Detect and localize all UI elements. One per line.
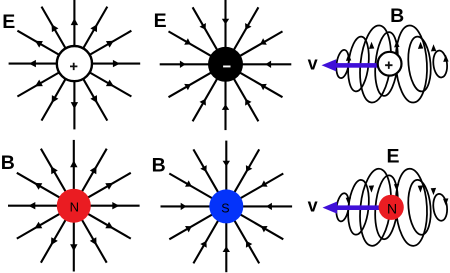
panel: E field of positive charge bbox=[2, 0, 140, 129]
B field loops bbox=[335, 24, 449, 104]
svg-text:B: B bbox=[390, 5, 404, 27]
svg-text:B: B bbox=[1, 152, 15, 174]
svg-text:v: v bbox=[308, 196, 318, 216]
velocity arrow bbox=[323, 202, 381, 214]
outward arrowheads bbox=[29, 18, 120, 109]
loop arrowheads bbox=[346, 40, 449, 62]
inward arrowheads bbox=[181, 161, 272, 252]
velocity arrow bbox=[322, 59, 380, 71]
field lines (outward rays) bbox=[9, 0, 141, 129]
svg-text:E: E bbox=[387, 145, 400, 167]
north pole circle bbox=[57, 189, 91, 223]
svg-text:E: E bbox=[154, 10, 167, 32]
positive charge circle bbox=[57, 46, 92, 81]
field lines (inward rays) bbox=[160, 0, 292, 130]
E field loops bbox=[335, 167, 449, 247]
svg-text:E: E bbox=[2, 11, 15, 33]
outward arrowheads bbox=[28, 160, 119, 251]
south pole circle bbox=[209, 189, 243, 223]
inward arrowheads bbox=[180, 19, 271, 110]
svg-text:N: N bbox=[387, 201, 397, 217]
moving positive charge bbox=[378, 52, 402, 76]
svg-text:S: S bbox=[221, 202, 229, 216]
minus sign bbox=[223, 66, 230, 68]
svg-text:N: N bbox=[70, 200, 79, 215]
loop arrowheads bbox=[346, 184, 449, 206]
panel: B field of north magnetic monopole bbox=[1, 140, 140, 272]
field lines (outward rays) bbox=[8, 140, 140, 272]
svg-text:v: v bbox=[308, 54, 318, 74]
svg-text:B: B bbox=[152, 155, 166, 177]
negative charge circle bbox=[208, 47, 243, 82]
panel: B field of south magnetic monopole bbox=[152, 141, 293, 273]
panel: B field of moving positive charge bbox=[308, 5, 449, 104]
panel: E field of negative charge bbox=[154, 0, 292, 130]
plus sign bbox=[385, 62, 392, 69]
field lines (inward rays) bbox=[161, 141, 293, 273]
plus sign bbox=[70, 63, 77, 70]
panel: E field of moving north monopole bbox=[308, 145, 449, 247]
moving north pole bbox=[379, 195, 404, 220]
